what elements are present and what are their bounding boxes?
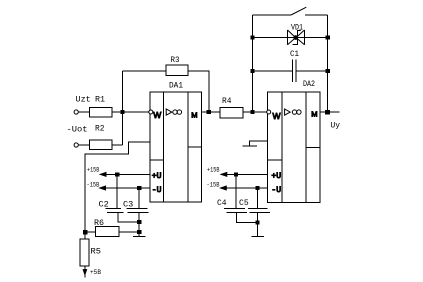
switch SA1 left wire — [252, 14, 291, 16]
wire +15B to DA2 +U — [221, 173, 267, 175]
svg-text:+15B: +15B — [207, 166, 220, 173]
wire C1 row right — [296, 70, 328, 72]
power +15B arrowhead left — [100, 173, 106, 177]
capacitor C3 top wire — [138, 188, 140, 208]
svg-text:R5: R5 — [91, 247, 102, 257]
svg-text:W: W — [273, 111, 281, 121]
ground bar right — [252, 235, 265, 237]
svg-text:+5B: +5B — [90, 269, 101, 276]
svg-text:+U: +U — [152, 172, 162, 181]
op-amp DA2 right column divider — [306, 146, 320, 148]
op-amp DA1 right column divider — [188, 146, 201, 148]
op-amp DA1 amplifier triangle — [166, 109, 172, 115]
svg-text:-15B: -15B — [207, 181, 220, 188]
wire R5 bottom — [84, 266, 86, 277]
wire R1 to node A — [112, 111, 149, 113]
wire -15B to DA2 -U — [221, 187, 268, 189]
svg-text:R1: R1 — [95, 95, 105, 105]
capacitor C3 plates — [127, 207, 148, 209]
op-amp U2 DA2 body — [268, 92, 321, 202]
svg-text:DA2: DA2 — [303, 79, 315, 89]
svg-text:Uzt: Uzt — [76, 94, 91, 104]
resistor R1 — [90, 108, 112, 118]
wire node A vertical — [121, 71, 123, 145]
wire -15B to DA1 -U — [100, 187, 150, 189]
svg-text:-U: -U — [271, 186, 281, 195]
wire R6 right — [119, 231, 139, 233]
wire C4 bottom to C5 net — [236, 213, 257, 223]
wire R3 right — [188, 71, 209, 112]
switch SA1 blade — [291, 7, 306, 15]
op-amp DA1 inverting input circle — [149, 110, 153, 114]
op-amp DA2 divider 1 — [281, 92, 283, 202]
resistor R6 — [95, 227, 119, 237]
power +5B arrowhead — [83, 270, 86, 275]
wire C5 bottom to ground — [257, 213, 259, 237]
capacitor C5 top wire — [257, 188, 259, 208]
capacitor C2 plates — [106, 207, 122, 209]
svg-text:R4: R4 — [222, 96, 232, 106]
power -15B arrowhead left — [100, 186, 106, 190]
node C1 left junction dot — [251, 69, 254, 72]
resistor R2 — [90, 140, 112, 150]
svg-text:C5: C5 — [239, 198, 249, 208]
svg-text:C3: C3 — [123, 200, 133, 210]
svg-text:-15B: -15B — [87, 181, 100, 188]
node C2 C3 junction dot — [138, 220, 141, 223]
capacitor C4 top wire — [235, 174, 237, 208]
svg-text:M: M — [191, 110, 197, 119]
svg-text:C2: C2 — [99, 200, 109, 210]
node -Uot input terminal — [74, 143, 78, 147]
wire Uzt to R1 — [78, 111, 89, 113]
wire R6 left — [85, 231, 95, 233]
op-amp DA2 inverting input circle — [267, 110, 271, 114]
svg-text:R6: R6 — [94, 218, 104, 228]
wire C1 row left — [252, 70, 292, 72]
op-amp U1 DA1 body — [150, 92, 202, 202]
node R5 R6 junction dot — [84, 231, 87, 234]
resistor R5 — [80, 239, 89, 266]
op-amp DA2 amplifier triangle — [285, 109, 291, 115]
node +15B C4 junction dot — [235, 173, 238, 176]
wire VD1 row — [252, 37, 327, 39]
op-amp DA1 divider 2 — [187, 92, 189, 202]
svg-text:+15B: +15B — [87, 166, 99, 173]
ground bar DA2 input — [243, 145, 258, 147]
node -15B C3 junction dot — [138, 186, 141, 189]
op-amp DA1 left column divider — [150, 159, 164, 161]
switch SA1 right wire — [305, 14, 328, 16]
wire +15B to DA1 +U — [101, 173, 150, 175]
node DA2 output junction dot — [326, 110, 330, 114]
op-amp DA1 divider 1 — [163, 92, 165, 202]
resistor R4 — [220, 108, 243, 119]
wire feedback right rail — [327, 15, 329, 112]
capacitor C1 plates — [292, 60, 294, 82]
svg-text:C4: C4 — [217, 198, 227, 208]
wire -Uot to R2 — [78, 144, 89, 146]
svg-text:C1: C1 — [290, 49, 299, 59]
power -15B right arrowhead — [221, 186, 227, 190]
wire C3 bottom to ground — [138, 213, 140, 237]
svg-text:DA1: DA1 — [169, 81, 183, 91]
node feedback left rail junction dot — [251, 111, 254, 114]
wire DA1 output to R4 — [201, 111, 220, 113]
node R6 C3 junction dot — [138, 230, 141, 233]
capacitor C2 top wire — [116, 174, 118, 208]
wire R2 to node A vertical — [112, 144, 123, 146]
svg-text:M: M — [311, 109, 317, 118]
wire R4 to DA2 input — [243, 111, 268, 113]
diode VD1 bidirectional zener — [288, 30, 305, 45]
node C1 right junction dot — [326, 69, 329, 72]
svg-text:+U: +U — [271, 172, 281, 181]
ground bar left — [133, 235, 146, 237]
resistor R3 — [166, 65, 188, 76]
node A junction dot — [121, 111, 124, 114]
node VD1 right junction dot — [326, 36, 329, 39]
svg-text:-U: -U — [152, 186, 162, 195]
op-amp DA2 infinity gain symbol — [292, 110, 301, 114]
node +15B C2 junction dot — [116, 173, 119, 176]
op-amp DA1 infinity gain symbol — [173, 110, 182, 114]
svg-text:W: W — [153, 110, 161, 120]
node -15B C5 junction dot — [256, 186, 259, 189]
wire DA2 noninverting input to ground — [250, 141, 268, 146]
wire feedback left rail — [251, 15, 253, 112]
wire DA2 output — [320, 111, 339, 113]
capacitor C4 plates — [224, 207, 245, 209]
node Uzt input terminal — [74, 110, 78, 114]
wire C2 bottom to C3 net — [118, 213, 139, 222]
svg-text:R3: R3 — [171, 55, 180, 65]
svg-text:R2: R2 — [95, 124, 105, 134]
svg-text:Uy: Uy — [331, 121, 341, 131]
wire DA1 noninverting input — [85, 142, 150, 239]
node C4 C5 junction dot — [256, 221, 259, 224]
wire R3 left — [122, 70, 166, 72]
op-amp DA2 left column divider — [268, 159, 282, 161]
op-amp DA2 divider 2 — [305, 92, 307, 202]
power +15B right arrowhead — [221, 173, 227, 177]
node DA1 output junction dot — [207, 111, 210, 114]
svg-text:-Uot: -Uot — [67, 124, 88, 134]
svg-text:VD1: VD1 — [291, 22, 303, 32]
capacitor C5 plates — [248, 207, 268, 209]
node VD1 left junction dot — [251, 36, 254, 39]
